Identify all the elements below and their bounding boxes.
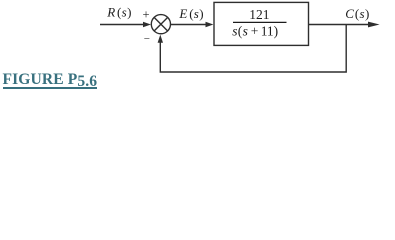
block G(s) = 121/s(s+11): [214, 2, 309, 45]
node C(s) output label: [345, 6, 369, 21]
svg-text:−: −: [144, 33, 150, 45]
svg-text:s: s: [243, 23, 248, 38]
svg-text:11): 11): [261, 23, 279, 38]
figure caption FIGURE P5.6: [3, 71, 98, 88]
node E(s) error label: [178, 6, 203, 21]
figure caption underline: [3, 87, 97, 89]
svg-text:E: E: [178, 6, 187, 21]
svg-text:s: s: [194, 6, 199, 21]
svg-text:121: 121: [249, 7, 269, 22]
value label denominator s(s+11): [232, 23, 278, 38]
fraction bar: [233, 21, 287, 23]
wire feedback path from takeoff point: down, left, up into summing junction: [158, 25, 347, 73]
svg-text:): ): [127, 5, 131, 20]
svg-text:s: s: [360, 6, 365, 21]
svg-text:): ): [199, 6, 203, 21]
svg-text:+: +: [143, 8, 150, 22]
wire block output to C(s) arrow: [309, 22, 380, 28]
svg-text:+: +: [251, 23, 259, 38]
svg-text:): ): [365, 6, 369, 21]
svg-text:s: s: [122, 5, 127, 20]
wire input R(s) to summing junction: [100, 22, 151, 28]
svg-text:s: s: [232, 23, 237, 38]
svg-text:C: C: [345, 6, 354, 21]
wire summing junction to block G(s): [170, 22, 213, 28]
summing junction: [151, 15, 170, 34]
svg-text:R: R: [106, 5, 115, 20]
node R(s) input label: [106, 5, 131, 20]
